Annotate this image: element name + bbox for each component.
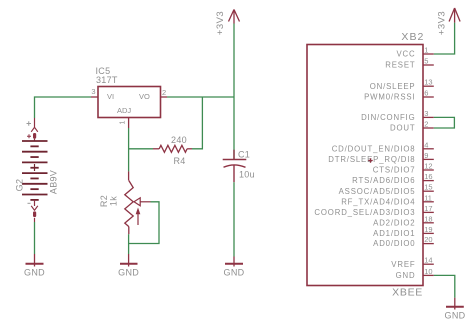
svg-text:RTS/AD6/DIO6: RTS/AD6/DIO6	[352, 176, 415, 185]
pin 14 VREF	[391, 256, 434, 269]
svg-text:10: 10	[424, 267, 432, 276]
svg-text:240: 240	[171, 135, 187, 145]
battery minus mark	[28, 202, 31, 204]
svg-text:ASSOC/AD5/DIO5: ASSOC/AD5/DIO5	[339, 187, 416, 196]
wire ADJ down	[128, 128, 130, 171]
clip chevron top	[31, 127, 38, 132]
svg-text:6: 6	[424, 89, 428, 98]
pin 10 GND	[396, 267, 434, 280]
svg-text:11: 11	[424, 193, 432, 202]
svg-text:CD/DOUT_EN/DIO8: CD/DOUT_EN/DIO8	[332, 144, 416, 153]
svg-text:GND: GND	[445, 311, 466, 321]
svg-text:2: 2	[162, 88, 166, 97]
snap rivet top	[33, 133, 36, 139]
pin 4 CD/DOUT_EN/DIO8	[332, 140, 434, 153]
pin 6 PWM0/RSSI	[364, 89, 434, 102]
ground (under C1)	[225, 257, 243, 267]
svg-text:12: 12	[424, 162, 432, 171]
svg-text:3: 3	[91, 87, 95, 96]
svg-text:20: 20	[424, 235, 432, 244]
svg-text:9: 9	[424, 151, 428, 160]
svg-text:15: 15	[424, 183, 432, 192]
supply symbol +3V3 (middle)	[229, 10, 240, 24]
pin 19 AD1/DIO1	[373, 225, 434, 238]
svg-text:C1: C1	[238, 150, 250, 160]
svg-text:2: 2	[424, 120, 428, 129]
XBee module XB2 box	[307, 45, 423, 286]
ground (under battery)	[26, 254, 44, 267]
wire +3V3 node down to C1	[233, 97, 235, 160]
svg-text:19: 19	[424, 225, 432, 234]
svg-text:RF_TX/AD4/DIO4: RF_TX/AD4/DIO4	[341, 197, 415, 206]
R2 wiper arrow	[134, 198, 151, 206]
svg-text:PWM0/RSSI: PWM0/RSSI	[364, 93, 415, 102]
svg-text:5: 5	[424, 57, 428, 66]
battery minus terminal	[31, 200, 38, 222]
pin 12 CTS/DIO7	[373, 162, 434, 175]
battery cell plates	[22, 141, 48, 200]
capacitor C1	[223, 150, 247, 183]
svg-text:GND: GND	[24, 268, 45, 278]
svg-text:3: 3	[424, 109, 428, 118]
wire R2 bottom to gnd	[128, 234, 130, 254]
wire DIN/DOUT loopback	[434, 117, 455, 128]
svg-text:14: 14	[424, 256, 432, 265]
svg-text:RESET: RESET	[385, 61, 415, 70]
svg-text:VO: VO	[139, 92, 150, 101]
svg-text:4: 4	[424, 140, 428, 149]
svg-text:AD0/DIO0: AD0/DIO0	[373, 239, 415, 248]
pin 1 stub (ADJ)	[128, 118, 130, 129]
+ terminal pin	[34, 118, 36, 127]
svg-text:13: 13	[424, 78, 432, 87]
wire ADJ node to R4	[129, 148, 153, 150]
pin 1 VCC	[396, 46, 433, 59]
wire C1 to gnd	[233, 182, 235, 256]
battery plus mark (outer)	[27, 121, 32, 125]
svg-text:COORD_SEL/AD3/DIO3: COORD_SEL/AD3/DIO3	[314, 208, 415, 217]
svg-text:16: 16	[424, 172, 432, 181]
wire VCC to +3V3 (right)	[434, 23, 455, 54]
ground (XBee)	[446, 298, 464, 310]
pin 17 COORD_SEL/AD3/DIO3	[314, 204, 433, 217]
pin 20 AD0/DIO0	[373, 235, 434, 248]
svg-text:G2: G2	[15, 179, 25, 192]
svg-text:18: 18	[424, 214, 432, 223]
pin 2 DOUT	[390, 120, 434, 133]
svg-text:AD2/DIO2: AD2/DIO2	[373, 218, 415, 227]
pin 2 stub (VO)	[161, 96, 168, 98]
wire GND pin to ground	[434, 275, 455, 297]
wire wiper down and to bottom	[129, 202, 159, 244]
svg-text:1: 1	[118, 120, 127, 124]
svg-text:XB2: XB2	[401, 31, 424, 43]
origin cross marker	[368, 158, 372, 162]
svg-text:10u: 10u	[239, 170, 255, 180]
svg-text:DIN/CONFIG: DIN/CONFIG	[361, 113, 415, 122]
supply symbol +3V3 (right)	[449, 8, 460, 23]
pin 15 ASSOC/AD5/DIO5	[339, 183, 434, 196]
svg-text:+3V3: +3V3	[437, 11, 448, 35]
pin 11 RF_TX/AD4/DIO4	[341, 193, 434, 206]
svg-text:GND: GND	[396, 271, 416, 280]
svg-text:VI: VI	[107, 92, 114, 101]
pin 13 ON/SLEEP	[370, 78, 434, 91]
svg-text:GND: GND	[224, 268, 245, 278]
svg-text:R2: R2	[99, 195, 109, 207]
potentiometer R2	[125, 171, 133, 234]
svg-text:GND: GND	[118, 268, 139, 278]
svg-text:317T: 317T	[96, 75, 118, 85]
pin 9 DTR/SLEEP_RQ/DI8	[328, 151, 434, 164]
svg-text:ADJ: ADJ	[117, 106, 131, 115]
battery plus mark (plate)	[27, 134, 31, 138]
wire VO to +3V3/C1 node	[167, 96, 234, 98]
wire +3V3 middle down to VO net	[233, 24, 235, 98]
pin 3 DIN/CONFIG	[361, 109, 434, 122]
svg-text:R4: R4	[173, 156, 185, 166]
svg-text:XBEE: XBEE	[392, 287, 423, 299]
ground (under R2)	[120, 254, 138, 267]
svg-text:+3V3: +3V3	[215, 11, 226, 35]
wire battery+ up and right to VI	[35, 97, 92, 118]
regulator IC5 box	[98, 87, 161, 118]
svg-text:DOUT: DOUT	[390, 124, 416, 133]
pin 16 RTS/AD6/DIO6	[352, 172, 434, 185]
resistor R4	[153, 145, 192, 152]
svg-text:VCC: VCC	[396, 50, 415, 59]
battery G2	[31, 118, 38, 141]
svg-text:AB9V: AB9V	[49, 170, 59, 194]
wire battery- to gnd	[34, 222, 36, 254]
svg-text:17: 17	[424, 204, 432, 213]
svg-text:DTR/SLEEP_RQ/DI8: DTR/SLEEP_RQ/DI8	[328, 155, 415, 164]
svg-text:VREF: VREF	[391, 260, 415, 269]
svg-text:1: 1	[424, 46, 428, 55]
pin 5 RESET	[385, 57, 434, 70]
svg-text:1k: 1k	[109, 196, 119, 206]
R2 adjust arrow	[137, 209, 140, 225]
svg-text:CTS/DIO7: CTS/DIO7	[373, 166, 416, 175]
svg-text:AD1/DIO1: AD1/DIO1	[373, 229, 415, 238]
pin 3 stub (VI)	[91, 96, 98, 98]
wire R4 to VO net riser	[192, 97, 202, 149]
svg-text:ON/SLEEP: ON/SLEEP	[370, 82, 416, 91]
pin 18 AD2/DIO2	[373, 214, 434, 227]
battery inter-cell tick	[34, 164, 36, 171]
